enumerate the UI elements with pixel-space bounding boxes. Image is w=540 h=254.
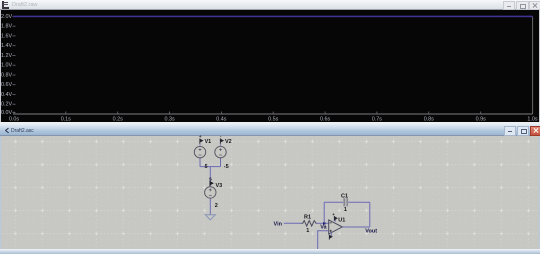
capacitor C1	[343, 198, 348, 207]
voltage source V3	[205, 187, 216, 198]
svg-text:0.3s: 0.3s	[164, 117, 174, 123]
svg-text:0.4s: 0.4s	[216, 117, 226, 123]
schematic window bottom frame	[0, 249, 540, 254]
junction dot at node Va	[323, 222, 325, 224]
svg-text:U1: U1	[338, 218, 345, 224]
voltage source V1	[194, 143, 205, 158]
schematic canvas	[0, 136, 540, 249]
svg-text:Va: Va	[320, 225, 327, 231]
svg-text:0.0V: 0.0V	[1, 110, 12, 116]
wire V3 bottom to ground	[209, 198, 211, 215]
svg-text:0.1s: 0.1s	[61, 117, 71, 123]
net flag Vs on wire above V3	[209, 177, 214, 187]
voltage source V2	[215, 143, 226, 158]
svg-text:-: -	[220, 134, 222, 139]
y-axis tick marks	[13, 16, 16, 112]
schematic window icon	[4, 128, 9, 134]
trace V(vout) flat at 2.0V	[13, 15, 533, 17]
net flag -5 on V2 top	[220, 134, 224, 144]
wire R1 to node Va	[317, 222, 329, 224]
svg-text:0.6V: 0.6V	[1, 82, 12, 88]
svg-text:1.2V: 1.2V	[1, 53, 12, 59]
x-axis labels	[9, 117, 538, 123]
svg-text:-5: -5	[224, 164, 229, 170]
svg-text:0.7s: 0.7s	[372, 117, 382, 123]
waveform plot black area	[0, 10, 540, 122]
wire joining V1/V2 bottoms	[200, 166, 221, 168]
waveform window title bar	[0, 0, 540, 10]
svg-text:0.5s: 0.5s	[268, 117, 278, 123]
schematic window buttons	[504, 126, 516, 136]
wire V2 bottom	[220, 158, 222, 167]
gap strip between windows	[0, 122, 540, 124]
op-amp V+ supply pin with +5 flag	[332, 212, 338, 222]
svg-text:1.8V: 1.8V	[1, 24, 12, 30]
wire feedback right vertical	[369, 202, 371, 227]
svg-text:2: 2	[215, 203, 218, 209]
svg-text:+: +	[332, 212, 335, 217]
svg-text:0.0s: 0.0s	[9, 117, 19, 123]
resistor R1	[302, 221, 317, 226]
svg-text:1.6V: 1.6V	[1, 33, 12, 39]
svg-text:R1: R1	[304, 215, 311, 221]
schematic window title text	[11, 128, 34, 134]
schematic window title bar	[0, 124, 540, 136]
svg-text:+: +	[199, 134, 202, 139]
svg-text:Vin: Vin	[274, 222, 283, 228]
wire op-amp non-inverting input down	[318, 231, 329, 249]
svg-text:0.9s: 0.9s	[476, 117, 486, 123]
net flag +5 on V1 top	[199, 134, 204, 144]
svg-text:0.4V: 0.4V	[1, 92, 12, 98]
op-amp V- supply pin with -5 flag	[329, 232, 333, 239]
plot right border	[532, 16, 534, 114]
svg-text:1.0s: 1.0s	[527, 117, 537, 123]
wire Vin to R1	[284, 222, 302, 224]
svg-text:V1: V1	[205, 139, 212, 145]
ground	[205, 215, 215, 220]
svg-text:0.6s: 0.6s	[320, 117, 330, 123]
wire junction to V3 top	[209, 167, 211, 187]
svg-text:2.0V: 2.0V	[1, 14, 12, 20]
svg-text:V3: V3	[216, 183, 223, 189]
wire op-amp output to Vout	[342, 226, 370, 228]
x-axis tick marks	[14, 112, 533, 115]
svg-text:C1: C1	[341, 193, 348, 199]
svg-text:0.8s: 0.8s	[424, 117, 434, 123]
wire feedback left vertical	[323, 202, 325, 223]
svg-text:0.8V: 0.8V	[1, 72, 12, 78]
y-axis labels	[1, 14, 12, 116]
x axis line	[13, 113, 533, 115]
waveform window title text	[12, 2, 37, 8]
svg-text:5: 5	[205, 164, 208, 170]
svg-text:1.4V: 1.4V	[1, 43, 12, 49]
svg-text:1: 1	[306, 228, 309, 234]
svg-text:V2: V2	[225, 139, 232, 145]
waveform window icon	[2, 1, 9, 9]
svg-text:Vout: Vout	[365, 228, 377, 234]
svg-text:0.2s: 0.2s	[113, 117, 123, 123]
svg-text:0.2V: 0.2V	[1, 102, 12, 108]
svg-text:1.0V: 1.0V	[1, 63, 12, 69]
wire feedback top horizontal	[324, 201, 370, 203]
svg-text:1: 1	[344, 207, 347, 213]
waveform window buttons	[503, 1, 515, 10]
op-amp U1	[329, 220, 343, 234]
wire V1 bottom	[199, 158, 201, 167]
